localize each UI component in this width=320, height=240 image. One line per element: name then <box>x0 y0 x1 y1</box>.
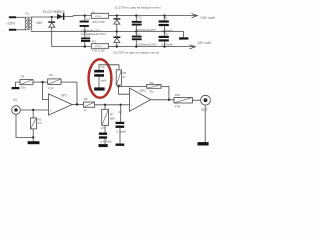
wire ground to R3 <box>16 82 21 87</box>
svg-text:75к: 75к <box>149 90 154 94</box>
arrow -15V <box>190 45 196 49</box>
wire R9 to output node <box>161 86 169 99</box>
ground bar OUT <box>198 142 209 145</box>
zener VD top arm <box>113 14 120 32</box>
svg-text:2C175A по два на каждое плечо: 2C175A по два на каждое плечо <box>115 5 161 9</box>
svg-text:C8: C8 <box>118 110 122 114</box>
svg-text:D1,D2 HM5818: D1,D2 HM5818 <box>43 10 65 14</box>
wire primary top <box>16 16 26 18</box>
resistor R1 <box>91 10 108 24</box>
svg-text:R4: R4 <box>49 73 53 77</box>
svg-text:4.7к: 4.7к <box>48 86 54 90</box>
jack OUT <box>201 95 211 112</box>
resistor R4 <box>48 73 61 90</box>
svg-text:2C175A по два на каждое плечо: 2C175A по два на каждое плечо <box>113 51 159 55</box>
wire 0V rail ground stub <box>183 32 185 38</box>
wire D1 to plus rail <box>64 15 73 18</box>
svg-text:10к: 10к <box>21 86 26 90</box>
wire IN jack ground loop <box>16 114 33 137</box>
wire OP2 output <box>151 99 174 101</box>
transformer T1 core <box>28 17 29 30</box>
resistor R6 <box>83 97 94 112</box>
svg-text:+: + <box>131 104 133 108</box>
ground bar for 0V rail <box>179 37 188 39</box>
svg-text:мкФ: мкФ <box>101 78 107 82</box>
wire R6 to OP2 plus node <box>95 104 121 106</box>
ground bar R3 <box>12 87 20 89</box>
wire to ground <box>32 137 34 141</box>
jack IN <box>12 98 21 114</box>
svg-text:47R 0.5W: 47R 0.5W <box>92 49 105 53</box>
resistor R8 <box>116 70 126 87</box>
capacitor C7 <box>99 126 112 144</box>
ground bar C7 <box>99 144 108 147</box>
wire 0V rail <box>31 31 184 33</box>
capacitor C8 <box>116 105 127 144</box>
transformer T1 primary terminal bottom <box>9 29 16 31</box>
ground bar input <box>28 141 40 144</box>
wire primary bottom <box>16 29 26 31</box>
transformer T1 secondary winding <box>31 17 32 30</box>
svg-text:680: 680 <box>110 117 115 121</box>
red highlight ellipse <box>89 59 112 97</box>
svg-text:+: + <box>50 109 52 113</box>
capacitor C4 <box>132 32 142 48</box>
transformer T1 primary terminal top <box>9 16 16 18</box>
svg-text:~18V: ~18V <box>34 21 43 25</box>
wire minus rail <box>52 46 195 48</box>
ground bar C8 <box>116 144 125 146</box>
node R7 tap <box>104 104 106 106</box>
svg-text:0.47мкФ: 0.47мкФ <box>100 140 112 144</box>
svg-text:R6: R6 <box>84 97 88 101</box>
op-amp OP1 <box>49 94 73 116</box>
wire node to OP1 inverting input <box>43 82 49 100</box>
wire node to OP2 plus input <box>121 104 133 106</box>
wire OP1 output <box>72 104 83 106</box>
zener VD bottom arm <box>113 32 120 48</box>
wire R10 to OUT jack <box>192 99 200 101</box>
svg-text:OP1: OP1 <box>61 94 68 98</box>
svg-text:C9: C9 <box>101 65 105 69</box>
wire +raw rail <box>73 15 197 17</box>
svg-text:0.47мкФ: 0.47мкФ <box>161 28 173 32</box>
svg-text:2200мкФх25V: 2200мкФх25V <box>137 28 156 32</box>
svg-text:2200мкФх25V: 2200мкФх25V <box>137 43 156 47</box>
svg-text:(х2 2200мкФх25V): (х2 2200мкФх25V) <box>81 32 106 36</box>
svg-text:47к: 47к <box>37 121 42 125</box>
resistor R3 <box>20 75 33 90</box>
svg-text:R10: R10 <box>175 93 181 97</box>
node junction D2 tap <box>51 16 53 18</box>
wire node to R9 <box>119 85 147 87</box>
node OP2 inverting junction <box>117 85 119 87</box>
capacitor C2 <box>81 32 90 48</box>
node R5 tap <box>32 109 34 111</box>
node OP1 output junction <box>76 103 78 105</box>
svg-text:OP1: OP1 <box>140 89 147 93</box>
svg-text:~220V: ~220V <box>6 21 17 25</box>
node C8 tap <box>120 104 122 106</box>
capacitor C5 <box>159 14 169 32</box>
resistor R9 <box>147 81 161 93</box>
capacitor C6 <box>159 32 169 48</box>
resistor R2 <box>91 40 108 53</box>
wire R3 to node <box>33 81 48 83</box>
node ground junction <box>32 136 34 138</box>
resistor R10 <box>174 93 192 109</box>
svg-text:-15V стаб.: -15V стаб. <box>197 41 212 45</box>
svg-text:47R0.5: 47R0.5 <box>95 16 103 18</box>
resistor R7 <box>102 105 116 133</box>
resistor R5 <box>30 110 42 137</box>
svg-text:47R: 47R <box>175 104 181 108</box>
op-amp OP2 <box>130 88 151 111</box>
capacitor C9 <box>94 65 119 88</box>
svg-text:C5: C5 <box>163 16 167 20</box>
arrow +15V <box>192 14 198 18</box>
wire secondary top to D1 <box>31 16 57 18</box>
wire OUT jack ground <box>204 106 206 143</box>
svg-text:+15V стаб.: +15V стаб. <box>200 16 216 20</box>
transformer T1 primary winding <box>25 17 26 30</box>
diode D2 <box>48 17 55 47</box>
svg-text:C3: C3 <box>138 16 142 20</box>
svg-text:OUT: OUT <box>201 108 208 112</box>
svg-text:47R 0.5W: 47R 0.5W <box>92 20 105 24</box>
ground bar C9 <box>94 87 104 90</box>
wire IN to OP1 plus <box>20 109 48 111</box>
svg-text:T1: T1 <box>25 12 29 16</box>
capacitor C3 <box>132 14 142 32</box>
svg-text:C7: C7 <box>101 126 105 130</box>
svg-text:R3: R3 <box>20 75 24 79</box>
svg-text:0.1мкФ: 0.1мкФ <box>116 129 127 133</box>
svg-text:0.47мкФ: 0.47мкФ <box>161 43 173 47</box>
diode D1 <box>57 13 64 19</box>
svg-text:R2: R2 <box>92 40 96 44</box>
svg-text:C1: C1 <box>86 17 90 21</box>
wire node to OP2 inverting input <box>119 86 130 94</box>
wire feedback down <box>76 82 78 104</box>
capacitor C1 <box>80 14 91 32</box>
node inverting input junction <box>41 81 43 83</box>
node output junction <box>168 99 170 101</box>
wire R4 to feedback corner <box>61 81 77 83</box>
